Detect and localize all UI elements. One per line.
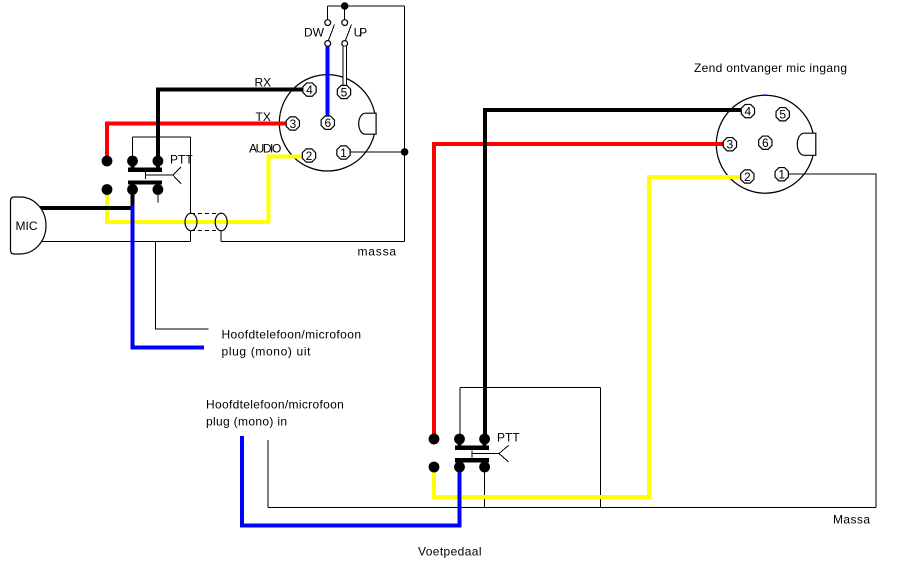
wire black (pin4 J2 to S2) <box>485 110 741 436</box>
wire pin1 J2 to Massa bus <box>789 174 876 507</box>
switch S4 UP contacts <box>342 20 348 26</box>
svg-text:4: 4 <box>306 83 313 97</box>
svg-text:3: 3 <box>289 117 296 131</box>
svg-text:UP: UP <box>354 26 368 40</box>
svg-text:1: 1 <box>340 146 347 160</box>
wire stub below S1 right bottom contact <box>157 194 159 203</box>
svg-text:Hoofdtelefoon/microfoon: Hoofdtelefoon/microfoon <box>222 328 362 342</box>
wire voetpedaal box right edge <box>600 387 602 507</box>
svg-text:6: 6 <box>762 136 769 150</box>
svg-text:Voetpedaal: Voetpedaal <box>418 545 482 559</box>
connector J2 keyway notch <box>797 133 816 155</box>
pin 4 <box>303 83 316 96</box>
svg-text:5: 5 <box>341 85 348 99</box>
svg-text:PTT: PTT <box>497 431 520 445</box>
wire yellow AUDIO (S1 to pin2 J1 via cable plug) <box>107 157 303 223</box>
svg-text:TX: TX <box>256 110 271 124</box>
pin 5 <box>776 108 789 121</box>
wire black MIC lead <box>40 192 133 208</box>
pin 6 <box>321 116 334 129</box>
wire blue DW (pin6 J1 up to switch) <box>326 46 330 116</box>
connector J1 keyway notch <box>359 113 376 134</box>
svg-text:AUDIO: AUDIO <box>249 142 281 156</box>
switch S3 DW contacts <box>325 20 331 26</box>
cable plug/jack symbol (mono coupling) <box>185 213 227 231</box>
pin 3 <box>723 138 736 151</box>
wire pin1 J1 to massa box <box>351 151 405 153</box>
pin 1 <box>337 146 350 159</box>
wire UP top stub <box>344 6 346 20</box>
wire voetpedaal box top <box>460 386 601 388</box>
wire DW top stub <box>327 6 329 20</box>
wire white (UP to pin5 J1) <box>343 46 346 86</box>
switch S1 PTT (handmic) <box>102 153 194 195</box>
pin 1 <box>775 168 788 181</box>
wire red TX (pin3 J1 to S1) <box>107 123 286 158</box>
pin 4 <box>741 104 754 117</box>
wire cable plug right lead down <box>220 231 222 242</box>
wire yellow (pin2 J2 to S2) <box>434 177 740 497</box>
wire voetpedaal box left edge to switch S2 <box>459 387 461 434</box>
svg-text:2: 2 <box>744 170 751 184</box>
svg-text:plug (mono) uit: plug (mono) uit <box>222 345 312 359</box>
connector J1 circle (mic plug, left) <box>279 75 375 171</box>
connector J2 circle (Zend ontvanger mic ingang, right) <box>716 95 814 193</box>
svg-text:2: 2 <box>306 149 313 163</box>
svg-text:4: 4 <box>745 105 752 119</box>
switch S4 UP lever <box>346 25 352 41</box>
svg-text:3: 3 <box>727 138 734 152</box>
junction dot massa box right edge <box>401 148 409 156</box>
svg-text:5: 5 <box>779 108 786 122</box>
switch S2 PTT (voetpedaal) <box>429 431 521 473</box>
blue blip artifact on J2 top <box>764 95 768 97</box>
pin 2 <box>741 170 754 183</box>
wire PTT box left stub to switch S1 <box>132 137 134 156</box>
switch S3 DW lever <box>329 25 335 41</box>
connector J1 pins <box>286 83 351 163</box>
svg-text:PTT: PTT <box>170 153 193 167</box>
wire top rail (DW/UP common to massa box) <box>328 5 405 7</box>
pin 5 <box>337 85 350 98</box>
wire mic cable bottom (left segment) <box>40 241 190 243</box>
wire blue voetpedaal <box>242 436 460 526</box>
wire stub below S2 right bottom contact to massa <box>484 471 486 508</box>
wire massa box right edge <box>404 6 406 242</box>
MIC microphone symbol <box>11 197 47 254</box>
svg-text:Hoofdtelefoon/microfoon: Hoofdtelefoon/microfoon <box>206 398 344 412</box>
svg-text:RX: RX <box>255 76 272 90</box>
svg-text:DW: DW <box>304 26 325 40</box>
svg-text:massa: massa <box>358 245 397 259</box>
pin 6 <box>759 136 772 149</box>
wire PTT box right edge to cable plug <box>189 137 191 213</box>
wire Massa bus bottom <box>268 507 876 509</box>
connector J2 pins <box>723 104 789 183</box>
svg-text:6: 6 <box>324 116 331 130</box>
svg-text:MIC: MIC <box>16 219 38 233</box>
svg-text:Zend ontvanger mic ingang: Zend ontvanger mic ingang <box>694 61 847 75</box>
wire cable plug left lead down <box>189 231 191 242</box>
svg-text:Massa: Massa <box>833 513 870 527</box>
junction dot top rail <box>341 2 349 10</box>
wire black RX (pin4 J1 to S1) <box>158 90 303 159</box>
pin 2 <box>302 149 315 162</box>
wire red (pin3 J2 to S2) <box>434 144 723 436</box>
wire massa box bottom (right segment) <box>221 241 405 243</box>
svg-text:plug (mono) in: plug (mono) in <box>206 415 287 429</box>
svg-text:1: 1 <box>778 168 785 182</box>
wire pointer to plug (mono) uit label <box>156 242 209 330</box>
wire PTT box top <box>133 136 191 138</box>
wire pointer from plug (mono) in label to Massa bus <box>267 440 269 508</box>
wire blue plug uit <box>133 206 205 348</box>
pin 3 <box>286 117 299 130</box>
